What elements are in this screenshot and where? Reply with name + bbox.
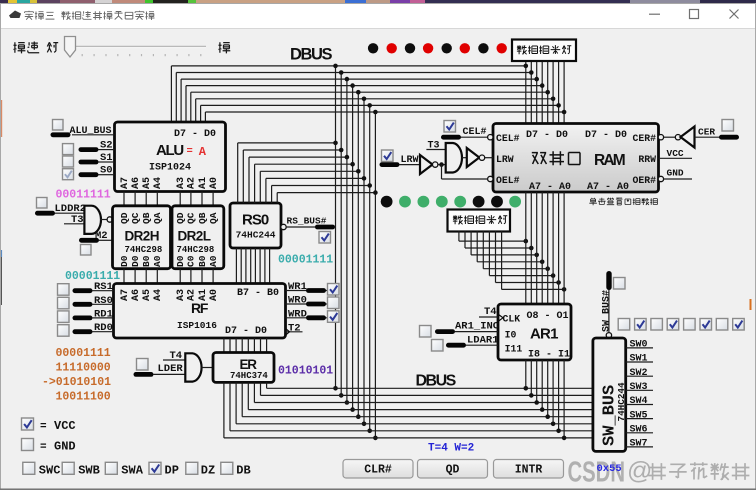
checkbox AR1_INC bbox=[420, 326, 432, 338]
indicator lamp D3 bbox=[442, 43, 452, 53]
svg-text:A7 - A0: A7 - A0 bbox=[529, 182, 571, 193]
wire DBUS bit 1 top bbox=[201, 104, 559, 106]
indicator lamp R7 bbox=[381, 196, 393, 208]
junction RAM D2 on DBUS bbox=[551, 97, 556, 102]
wire RF B0 to RS0 bbox=[269, 248, 271, 284]
checkbox WRD bbox=[328, 311, 340, 323]
svg-text:WRD: WRD bbox=[288, 308, 307, 320]
junction LRW node bbox=[439, 162, 444, 167]
wire ER Q6 to DBUS bbox=[229, 382, 231, 430]
speed slider row: 调速 快 ... 慢 bbox=[14, 42, 26, 53]
wire S2 bbox=[79, 147, 99, 152]
legend GND bbox=[22, 439, 34, 451]
junction AR1 I3 bbox=[551, 422, 556, 427]
wire RAM D5 bbox=[536, 61, 538, 124]
svg-text:I11: I11 bbox=[505, 343, 523, 354]
wire RF D1 to ER bbox=[260, 338, 262, 353]
wire RF B6 to RS0 bbox=[240, 248, 242, 284]
svg-text:A7 - A0: A7 - A0 bbox=[587, 182, 629, 193]
svg-text:00011111: 00011111 bbox=[56, 189, 111, 202]
junction RS0 bit 3 bbox=[356, 169, 361, 174]
wire RF D4 to ER bbox=[241, 338, 243, 353]
checkbox LRW bbox=[382, 150, 394, 162]
svg-text:A4: A4 bbox=[153, 289, 164, 301]
address register AR1 bbox=[498, 304, 571, 360]
button CLR# bbox=[343, 460, 413, 479]
wire DBUS bottom line 4 bbox=[242, 416, 593, 418]
svg-text:AR1: AR1 bbox=[530, 325, 558, 342]
wire indicator2 bit 2 bbox=[470, 231, 472, 255]
wire LDAR1 bbox=[446, 343, 466, 348]
checkbox SW bit 2 bbox=[651, 319, 663, 331]
svg-text:B0: B0 bbox=[197, 255, 208, 267]
svg-text:DP: DP bbox=[165, 464, 179, 478]
wire DR out 2 to RF bbox=[145, 269, 147, 284]
junction AR1 I1 bbox=[562, 436, 567, 441]
close button bbox=[730, 10, 739, 19]
wire RF B7 to RS0 bbox=[235, 248, 237, 284]
checkbox RS_BUS# bbox=[319, 232, 331, 244]
svg-text:T4: T4 bbox=[484, 306, 497, 318]
wire ALU A3 to DR bbox=[179, 192, 181, 206]
svg-text:QD: QD bbox=[446, 464, 460, 477]
checkbox S1 bbox=[63, 156, 74, 167]
indicator lamp R4 bbox=[436, 196, 448, 208]
svg-text:O8 - O1: O8 - O1 bbox=[527, 311, 569, 322]
wire RS0 bit 4 bbox=[254, 164, 256, 203]
wire ER Q0 to DBUS bbox=[266, 382, 268, 388]
wire RF D2 to ER bbox=[253, 338, 255, 353]
junction bottom trunk 5 bbox=[362, 422, 367, 427]
wire RF B5 to RS0 bbox=[245, 248, 247, 284]
svg-text:11110000: 11110000 bbox=[56, 362, 111, 375]
svg-text:A0: A0 bbox=[152, 255, 163, 267]
svg-text:DZ: DZ bbox=[201, 464, 215, 478]
checkbox RD0 bbox=[58, 325, 70, 337]
wire ALU A1 to DR bbox=[201, 192, 203, 206]
wire RS0 bit 2 bbox=[265, 178, 267, 203]
svg-text:C0: C0 bbox=[186, 255, 197, 267]
wire RAM A7 to AR1 bbox=[525, 192, 527, 304]
and-gate G2 (LDER·T4) bbox=[185, 353, 201, 381]
wire DBUS bit 0 vertical trunk bbox=[374, 112, 376, 438]
wire AR1 I2 bbox=[558, 360, 560, 431]
svg-text:SW7: SW7 bbox=[630, 439, 648, 450]
svg-text:RD0: RD0 bbox=[94, 322, 113, 334]
slider ticks bbox=[69, 54, 71, 56]
wire RF B1 to RS0 bbox=[264, 248, 266, 284]
svg-text:LRW: LRW bbox=[496, 154, 514, 165]
svg-text:A2: A2 bbox=[187, 177, 198, 189]
junction top trunk 6 bbox=[367, 103, 372, 108]
junction AR1 I5 bbox=[540, 407, 545, 412]
wire DBUS bottom line 2 bbox=[254, 402, 593, 404]
inverter N1 bbox=[420, 155, 433, 174]
junction RAM D5 on DBUS bbox=[534, 77, 539, 82]
junction indicator2 bit 3 bbox=[540, 260, 545, 265]
wire indicator2 bit 4 bbox=[482, 231, 484, 269]
junction AR1 I4 bbox=[545, 414, 550, 419]
svg-text:@: @ bbox=[627, 457, 652, 485]
svg-text:SW1: SW1 bbox=[630, 354, 648, 365]
wire WR0 bbox=[286, 303, 328, 305]
svg-text:CLR#: CLR# bbox=[364, 464, 392, 477]
wire indicator2 bit 1 bbox=[464, 231, 466, 248]
checkbox RD1 bbox=[58, 311, 70, 323]
wire RAM A4 to AR1 bbox=[541, 192, 543, 304]
svg-text:D0: D0 bbox=[130, 255, 141, 267]
wire ER Q1 to DBUS bbox=[260, 382, 262, 395]
wire RF B3 to RS0 bbox=[254, 248, 256, 284]
indicator lamp R0 bbox=[509, 196, 521, 208]
svg-text:=: = bbox=[40, 421, 47, 433]
wire ER Q2 to DBUS bbox=[253, 382, 255, 402]
checkbox ALU_BUS bbox=[53, 120, 64, 131]
wire DR out 0 to RF bbox=[123, 269, 125, 284]
svg-text:ALU: ALU bbox=[156, 142, 183, 159]
wire gate G1 out bbox=[100, 219, 107, 221]
indicator lamp R6 bbox=[399, 196, 411, 208]
svg-text:INTR: INTR bbox=[515, 464, 543, 477]
slider handle bbox=[65, 37, 76, 58]
junction RS0 bit 1 bbox=[367, 183, 372, 188]
wire indicator2 bit 6 bbox=[495, 231, 497, 283]
svg-text:RF: RF bbox=[191, 300, 209, 316]
svg-text:B0: B0 bbox=[141, 255, 152, 267]
junction indicator2 bit 5 bbox=[551, 273, 556, 278]
svg-text:A0: A0 bbox=[209, 289, 220, 301]
slider track bbox=[64, 46, 206, 48]
wire DR out 5 to RF bbox=[190, 269, 192, 284]
checkbox SWC bbox=[23, 462, 35, 474]
checkbox RS0 bbox=[58, 297, 70, 309]
checkbox S2 bbox=[63, 144, 74, 155]
CER control bbox=[658, 135, 663, 140]
maximize button bbox=[690, 10, 699, 19]
svg-text:WR1: WR1 bbox=[288, 281, 307, 293]
wire WRD bbox=[286, 317, 328, 319]
svg-text:D7 - D0: D7 - D0 bbox=[174, 129, 216, 140]
wire RS1 bbox=[73, 288, 93, 293]
SW_BUS# control bbox=[606, 271, 611, 290]
wire RF B4 to RS0 bbox=[250, 248, 252, 284]
checkbox LDDR2 bbox=[37, 198, 48, 209]
wire AR1 I4 bbox=[547, 360, 549, 417]
checkbox CEL# bbox=[444, 121, 456, 133]
wire ER Q7 to DBUS bbox=[223, 382, 225, 438]
svg-text:A1: A1 bbox=[198, 177, 209, 189]
indicator lamp D2 bbox=[460, 43, 470, 53]
wire RAM A0 to AR1 bbox=[563, 192, 565, 304]
legend VCC bbox=[22, 418, 34, 430]
wire RS0 bit 5 bbox=[248, 157, 250, 203]
wire RF D0 to ER bbox=[266, 338, 268, 353]
wire CEL# bbox=[461, 136, 488, 138]
junction bottom trunk 2 bbox=[345, 400, 350, 405]
junction bottom trunk 7 bbox=[373, 436, 378, 441]
svg-text:A6: A6 bbox=[131, 177, 142, 189]
svg-text:D7 - D0: D7 - D0 bbox=[526, 130, 568, 141]
register DR2L 74HC298 bbox=[172, 206, 224, 269]
wire ALU_BUS bbox=[72, 134, 115, 136]
wire ALU A5 to DR bbox=[145, 192, 147, 206]
checkbox SW bit 4 bbox=[684, 319, 696, 331]
svg-text:SWC: SWC bbox=[39, 464, 61, 478]
svg-text:OER#: OER# bbox=[632, 175, 656, 186]
indicator lamp D1 bbox=[478, 43, 488, 53]
junction bottom trunk 6 bbox=[367, 429, 372, 434]
wire RD1 bbox=[73, 316, 93, 321]
checkbox M2 bbox=[81, 245, 92, 256]
checkbox SW bit 6 bbox=[716, 319, 728, 331]
wire DR out 1 to RF bbox=[134, 269, 136, 284]
indicator lamp D5 bbox=[405, 43, 415, 53]
wire RS0 bit 7 bbox=[237, 143, 239, 203]
wire DBUS bottom line 0 bbox=[267, 387, 593, 389]
checkbox SW bit 7 bbox=[733, 319, 745, 331]
svg-text:QB: QB bbox=[197, 212, 208, 224]
junction RS0 bit 0 bbox=[373, 190, 378, 195]
wire RAM D6 bbox=[530, 61, 532, 124]
wire AR1_INC bbox=[435, 329, 455, 334]
svg-text:10011100: 10011100 bbox=[56, 391, 111, 404]
svg-text:RRW: RRW bbox=[638, 154, 656, 165]
wire node to OEL# bbox=[441, 165, 443, 179]
junction RAM D3 on DBUS bbox=[545, 90, 550, 95]
wire N1 out bbox=[438, 164, 446, 166]
svg-text:AR1_INC: AR1_INC bbox=[455, 321, 500, 333]
checkbox SW bit 3 bbox=[667, 319, 679, 331]
wire DBUS bit 6 top bbox=[176, 72, 531, 74]
wire RAM A2 to AR1 bbox=[552, 192, 554, 304]
svg-text:LDER: LDER bbox=[158, 363, 184, 375]
svg-text:CER: CER bbox=[698, 127, 715, 138]
indicator lamp R5 bbox=[418, 196, 430, 208]
indicator lamp R3 bbox=[454, 196, 466, 208]
svg-text:74HC244: 74HC244 bbox=[616, 382, 627, 421]
junction top trunk 2 bbox=[345, 77, 350, 82]
svg-text:GND: GND bbox=[667, 168, 684, 179]
wire ALU A7 to DR bbox=[123, 192, 125, 206]
wire DR out 7 to RF bbox=[212, 269, 214, 284]
svg-text:D0: D0 bbox=[119, 255, 130, 267]
wire RS0 bit 0 bbox=[276, 193, 278, 203]
svg-text:->01010101: ->01010101 bbox=[42, 376, 111, 389]
wire DBUS bit 0 top bbox=[205, 111, 564, 113]
svg-text:CEL#: CEL# bbox=[463, 127, 487, 138]
junction RS0 bit 6 bbox=[339, 148, 344, 153]
wire ALU A6 to DR bbox=[134, 192, 136, 206]
svg-text:QA: QA bbox=[208, 212, 219, 224]
wire LRW bbox=[400, 164, 421, 166]
wire DBUS bit 2 top bbox=[196, 98, 553, 100]
minimize button bbox=[649, 13, 660, 15]
svg-text:=: = bbox=[40, 442, 47, 454]
svg-text:QD: QD bbox=[119, 212, 130, 224]
wire DBUS bottom line 7 bbox=[224, 437, 593, 439]
wire DBUS bottom line 3 bbox=[248, 409, 593, 411]
app icon bbox=[9, 11, 21, 19]
checkbox SW bit 1 bbox=[635, 319, 647, 331]
wire AR1 I6 bbox=[536, 360, 538, 403]
and-gate G1 (LDDR2·T3) bbox=[84, 206, 101, 234]
junction RAM D6 on DBUS bbox=[529, 70, 534, 75]
wire RAM D2 bbox=[552, 61, 554, 124]
junction RS0 bit 4 bbox=[350, 162, 355, 167]
wire DBUS bit 5 vertical trunk bbox=[346, 79, 348, 402]
svg-text:D0: D0 bbox=[175, 255, 186, 267]
wire RAM D4 bbox=[541, 61, 543, 124]
wire DR out 4 to RF bbox=[179, 269, 181, 284]
wire ALU A0 to DR bbox=[212, 192, 214, 206]
junction bottom trunk 0 bbox=[333, 386, 338, 391]
wire DBUS bit 1 vertical trunk bbox=[369, 105, 371, 430]
indicator lamp R1 bbox=[491, 196, 503, 208]
wire RF D6 to ER bbox=[229, 338, 231, 353]
svg-text:ISP1016: ISP1016 bbox=[177, 320, 217, 331]
junction bottom trunk 4 bbox=[356, 414, 361, 419]
wire DR out 6 to RF bbox=[201, 269, 203, 284]
junction AR1 I7 bbox=[529, 393, 534, 398]
wire RAM D0 bbox=[563, 61, 565, 124]
wire RAM D1 bbox=[558, 61, 560, 124]
svg-text:A4: A4 bbox=[153, 177, 164, 189]
svg-text:A5: A5 bbox=[142, 289, 153, 301]
wire DBUS bit 4 top bbox=[186, 85, 542, 87]
svg-text:ISP1024: ISP1024 bbox=[149, 163, 191, 174]
svg-text:A2: A2 bbox=[187, 289, 198, 301]
junction bottom trunk 3 bbox=[350, 407, 355, 412]
svg-text:SW4: SW4 bbox=[630, 396, 648, 407]
checkbox RS1 bbox=[58, 284, 70, 296]
wire RF D3 to ER bbox=[247, 338, 249, 353]
wire AR1 I3 bbox=[552, 360, 554, 424]
wire DBUS bit 7 vertical trunk bbox=[335, 66, 337, 388]
indicator lamp D4 bbox=[423, 43, 433, 53]
svg-text:RD1: RD1 bbox=[94, 308, 113, 320]
title bar bbox=[0, 3, 756, 28]
svg-text:74HC298: 74HC298 bbox=[177, 245, 215, 255]
wire RAM A1 to AR1 bbox=[558, 192, 560, 304]
svg-text:A0: A0 bbox=[209, 177, 220, 189]
checkbox DZ bbox=[186, 462, 198, 474]
and-gate G3 bbox=[446, 143, 462, 173]
junction indicator2 bit 0 bbox=[524, 239, 529, 244]
junction AR1 I2 bbox=[556, 429, 561, 434]
svg-text:ER: ER bbox=[240, 357, 258, 372]
svg-text:WR0: WR0 bbox=[288, 295, 307, 307]
svg-text:SW6: SW6 bbox=[630, 425, 648, 436]
wire RF D7 to ER bbox=[223, 338, 225, 353]
svg-text:S1: S1 bbox=[100, 152, 113, 164]
wire indicator2 bit 5 bbox=[488, 231, 490, 276]
checkbox LDER bbox=[137, 359, 149, 371]
svg-text:A3: A3 bbox=[176, 177, 187, 189]
svg-text:T2: T2 bbox=[288, 323, 301, 335]
indicator lamp R2 bbox=[473, 196, 485, 208]
svg-text:DR2H: DR2H bbox=[125, 229, 159, 244]
svg-text:A3: A3 bbox=[176, 289, 187, 301]
wire DBUS bottom line 5 bbox=[236, 423, 593, 425]
wire AR1 I1 bbox=[563, 360, 565, 438]
checkbox SW bit 5 bbox=[700, 319, 712, 331]
junction indicator2 bit 4 bbox=[545, 266, 550, 271]
checkbox S0 bbox=[63, 169, 74, 180]
wire M2 bbox=[79, 238, 99, 243]
checkbox LDAR1 bbox=[432, 340, 444, 352]
checkbox SWB bbox=[62, 462, 74, 474]
svg-text:A7: A7 bbox=[120, 289, 131, 301]
wire RF D5 to ER bbox=[235, 338, 237, 353]
buffer CER (left pointing) bbox=[681, 127, 695, 148]
svg-text:I8 - I1: I8 - I1 bbox=[528, 350, 570, 361]
indicator lamp D6 bbox=[387, 43, 397, 53]
svg-text:A0: A0 bbox=[208, 255, 219, 267]
svg-text:QC: QC bbox=[186, 212, 197, 224]
svg-text:A5: A5 bbox=[142, 177, 153, 189]
buffer N2 bbox=[462, 157, 467, 159]
data indicator label box 2 bbox=[448, 210, 511, 232]
svg-text:CLK: CLK bbox=[503, 313, 521, 324]
wire DBUS bit 5 top bbox=[181, 78, 537, 80]
checkbox SW bit 0 bbox=[618, 319, 630, 331]
svg-text:74HC244: 74HC244 bbox=[236, 230, 276, 241]
wire WR1 bbox=[286, 290, 328, 292]
junction RS0 bit 2 bbox=[362, 176, 367, 181]
svg-text:B7 - B0: B7 - B0 bbox=[237, 288, 279, 299]
wire ALU A4 to DR bbox=[156, 192, 158, 206]
junction RAM D0 on DBUS bbox=[562, 110, 567, 115]
wire DBUS bit 3 vertical trunk bbox=[357, 92, 359, 417]
svg-text:I0: I0 bbox=[505, 330, 517, 341]
wire RS0 bit 6 bbox=[242, 150, 244, 203]
wire LDDR2 bbox=[35, 211, 55, 216]
wire DBUS bottom line 6 bbox=[230, 430, 593, 432]
wire DBUS bit 2 vertical trunk bbox=[363, 99, 365, 424]
wire ER Q5 to DBUS bbox=[235, 382, 237, 423]
svg-text:QC: QC bbox=[130, 212, 141, 224]
junction bottom trunk 1 bbox=[339, 393, 344, 398]
wire AR1 I5 bbox=[541, 360, 543, 410]
svg-text:RAM: RAM bbox=[594, 152, 625, 169]
svg-text:GND: GND bbox=[54, 440, 76, 454]
svg-text:CEL#: CEL# bbox=[496, 133, 520, 144]
wire RD0 bbox=[73, 329, 93, 334]
wire RS0 bbox=[73, 302, 93, 307]
junction top trunk 3 bbox=[350, 83, 355, 88]
wire AR1 I8 bbox=[525, 360, 527, 388]
checkbox CER bbox=[722, 120, 734, 132]
wire RF B2 to RS0 bbox=[259, 248, 261, 284]
junction RAM D1 on DBUS bbox=[556, 103, 561, 108]
junction AR1 I6 bbox=[534, 400, 539, 405]
svg-text:QB: QB bbox=[141, 212, 152, 224]
svg-text:RS0: RS0 bbox=[94, 295, 113, 307]
window title 实验三 数据通路组成的实验 bbox=[25, 11, 34, 20]
wire indicator2 bit 0 bbox=[458, 231, 460, 241]
wire indicator2 bit 3 bbox=[476, 231, 478, 262]
wire DBUS bit 4 vertical trunk bbox=[352, 86, 354, 410]
left edge artifacts bbox=[1, 100, 3, 137]
switch buffer SW_BUS 74HC244 bbox=[593, 338, 626, 451]
junction RAM D7 on DBUS bbox=[524, 64, 529, 69]
svg-text:SWB: SWB bbox=[78, 464, 100, 478]
wire indicator2 bit 7 bbox=[501, 231, 503, 289]
svg-text:01010101: 01010101 bbox=[278, 365, 333, 378]
dual port RAM block bbox=[493, 124, 659, 193]
svg-text:DR2L: DR2L bbox=[178, 229, 211, 244]
wire RAM D7 bbox=[525, 61, 527, 124]
